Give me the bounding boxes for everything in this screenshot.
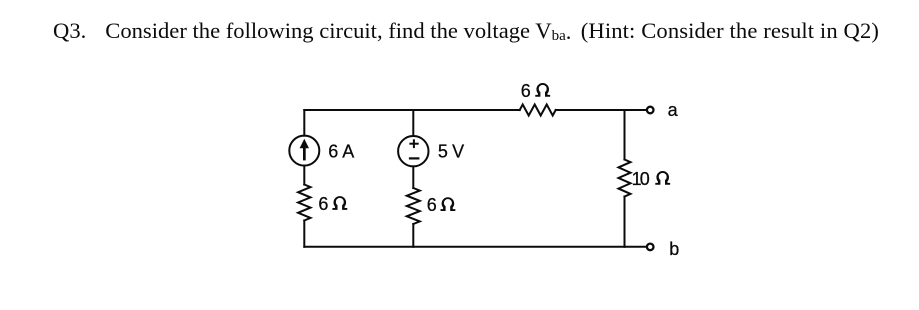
wire right branch upper [624,110,626,160]
label 10 Ω right resistor [632,169,671,189]
voltage source minus sign [409,157,420,159]
terminal b circle [647,244,654,251]
label 6 Ω left resistor [318,194,347,214]
label 6 Ω middle resistor [427,195,456,215]
voltage source plus sign [409,139,418,148]
svg-text:b: b [669,239,679,259]
wire right branch lower [624,197,626,247]
svg-text:6 A: 6 A [328,142,354,162]
voltage source V1 circle [398,136,428,166]
wire top left segment [304,109,519,111]
label 6 Ω top resistor [521,81,550,101]
current source arrow [300,139,309,161]
resistor 6ohm top horizontal [520,105,556,116]
node b label [669,239,679,259]
label 6 A [328,142,354,162]
resistor 6ohm middle vertical [407,188,420,224]
wire middle branch upper [412,110,414,136]
current source I1 circle [289,136,319,166]
svg-text:6: 6 [318,194,328,214]
node a label [668,100,679,120]
label 5 V [438,142,464,162]
terminal a circle [647,107,654,114]
wire voltage source to resistor [412,166,414,188]
title text [53,20,879,43]
wire left branch lower [303,221,305,247]
wire middle branch lower [412,224,414,247]
svg-text:5 V: 5 V [438,142,464,162]
wire left branch upper [303,110,305,136]
svg-text:6: 6 [521,81,531,101]
wire current source to resistor [303,166,305,185]
wire top right segment [556,109,647,111]
wire bottom [304,246,646,248]
svg-text:10: 10 [632,169,650,189]
svg-text:6: 6 [427,195,437,215]
resistor 6ohm left vertical [298,185,310,221]
resistor 10ohm right vertical [619,160,631,197]
svg-text:a: a [668,100,679,120]
